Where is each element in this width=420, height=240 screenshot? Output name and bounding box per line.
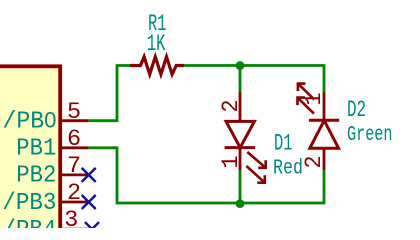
svg-text:6: 6 [67,126,81,153]
svg-text:Green: Green [347,124,393,147]
pin 5 stub [60,119,89,122]
svg-text:1K: 1K [147,31,166,57]
svg-text:2: 2 [67,180,81,207]
svg-text:2: 2 [218,100,245,113]
svg-text:5: 5 [67,99,81,126]
svg-text:1: 1 [218,156,245,169]
D1 pin number 1 (rotated) [218,156,245,169]
label 1K [147,31,166,57]
wire pin5 to R1 (up) [89,66,131,121]
label D2 [347,97,366,123]
D1 pin number 2 (rotated) [218,100,245,113]
svg-text:Red: Red [273,157,303,180]
svg-text:/PB0: /PB0 [2,107,56,135]
label R1 [148,11,167,37]
pin 6 stub [60,146,89,149]
LED D1 pin 1 (cathode stub) [239,148,242,170]
svg-text:PB2: PB2 [16,163,56,190]
pin name PB1 [16,136,56,163]
LED D1 body (triangle + cathode bar) [225,121,256,147]
svg-text:2: 2 [301,156,328,169]
pin number 2 [67,180,81,207]
svg-text:7: 7 [67,153,81,180]
svg-text:PB1: PB1 [16,136,56,163]
pin 3 stub [60,228,89,231]
junction node top (dot) [236,61,245,70]
LED D2 pin 1 (cathode stub, top) [323,93,326,121]
IC body (partial, left edge of schematic) [0,66,60,240]
label D1 [274,131,293,157]
pin 2 stub [60,201,89,204]
no-connect X on pin 3 [85,222,99,236]
no-connect X on pin 2 [82,195,96,209]
D1 emission arrows (down-right) [246,152,265,183]
wire D1 cathode to bottom bus [239,170,242,203]
no-connect X on pin 7 [82,168,96,182]
pin name /PB3 [2,190,56,217]
LED D1 pin 2 (anode stub) [239,93,242,122]
wire pin6 to bottom bus to D2 anode [89,148,324,203]
pin number 5 [67,99,81,126]
label Green [347,124,393,147]
pin number 3 [64,207,78,234]
label Red [273,157,303,180]
wire junction to D1 anode [239,66,242,94]
pin 7 stub [60,173,89,176]
resistor R1 [130,57,184,75]
LED D2 pin 2 (anode stub, bottom) [323,148,326,169]
LED D2 body (cathode bar + triangle pointing up) [309,120,339,148]
pin number 7 [67,153,81,180]
svg-text:/PB4: /PB4 [2,217,56,228]
junction node bottom (dot) [236,199,245,208]
pin name /PB0 [2,107,56,135]
pin name /PB4 [2,217,56,240]
svg-text:D1: D1 [274,131,293,157]
pin name PB2 [16,163,56,190]
svg-text:3: 3 [64,207,78,228]
pin number 6 [67,126,81,153]
svg-text:D2: D2 [347,97,366,123]
D2 pin number 2 (rotated) [301,156,328,169]
svg-text:1: 1 [301,93,328,106]
svg-text:/PB3: /PB3 [2,190,56,217]
D2 pin number 1 (rotated) [301,93,328,106]
wire R1 to D2 top (top rail) [184,66,324,94]
D2 emission arrows (up-left) [298,84,315,114]
